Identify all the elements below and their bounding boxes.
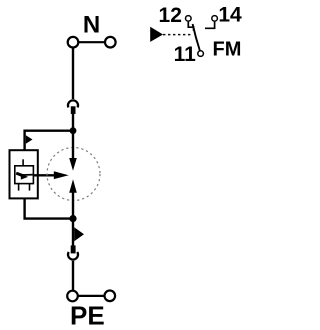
arrow disconnector top (26, 135, 33, 144)
plug-in disconnect top: plug pin (71, 106, 76, 114)
plug-in disconnect bottom: socket arc (68, 252, 78, 260)
wire node A to top electrode (72, 131, 74, 159)
svg-text:PE: PE (70, 301, 105, 330)
node B junction dot (69, 215, 76, 222)
wire N down to plug connector (72, 48, 74, 100)
electrode tick bottom-left (18, 184, 20, 191)
terminal circle N-right (105, 37, 116, 48)
contact 14 fixed (205, 22, 215, 28)
changeover blade 11 (193, 24, 200, 51)
svg-text:11: 11 (174, 43, 197, 66)
svg-text:FM: FM (213, 39, 242, 61)
wire left branch top (25, 131, 73, 150)
terminal circle PE-left (67, 291, 78, 302)
wire to PE terminal (72, 261, 74, 291)
monitoring device box (10, 150, 38, 198)
terminal circle PE-right (105, 291, 116, 302)
lightning symbol (16, 173, 23, 176)
FM contact: mechanical linkage dashed (163, 34, 191, 36)
wire bottom electrode to node B (72, 193, 74, 220)
terminal circle 12 (186, 16, 192, 22)
arrow disconnector bottom (74, 227, 84, 241)
electrode tick top (22, 159, 24, 165)
plug-in disconnect top: socket arc (68, 100, 78, 107)
node A junction dot (70, 127, 77, 134)
terminal circle 14 (212, 16, 218, 22)
electrode tick bottom-right (29, 184, 31, 191)
contact 12 fixed (188, 22, 193, 31)
spark gap electrode arrow down (69, 158, 77, 171)
svg-text:12: 12 (159, 4, 182, 27)
wire plug to node A (72, 114, 74, 131)
terminal circle 11 (198, 51, 204, 57)
wire node B down (72, 219, 74, 246)
spark gap electrode arrow up (69, 179, 77, 193)
terminal circle N-left (68, 37, 79, 48)
plug-in disconnect bottom: plug pin (71, 245, 76, 253)
trigger arrowhead (54, 171, 69, 179)
monitoring device inner square (15, 166, 34, 184)
FM contact: actuator arrow (150, 27, 163, 42)
svg-text:N: N (83, 11, 100, 38)
wire between N terminals (78, 41, 105, 43)
wire left branch bottom (25, 198, 73, 218)
svg-text:14: 14 (218, 4, 242, 27)
trigger arrow line to spark gap (33, 174, 55, 176)
spark gap dashed circle (47, 148, 100, 201)
wire between PE terminals (78, 295, 105, 297)
